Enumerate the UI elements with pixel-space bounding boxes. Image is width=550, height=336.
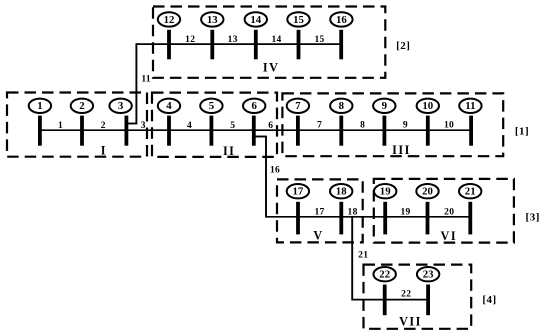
svg-text:12: 12 bbox=[164, 14, 175, 26]
svg-text:3: 3 bbox=[118, 100, 124, 112]
svg-text:17: 17 bbox=[314, 207, 324, 217]
wire feeder row VII bbox=[352, 299, 428, 301]
zone box V bbox=[277, 179, 363, 242]
bus 8 bbox=[339, 116, 343, 146]
bus 21 bbox=[468, 202, 472, 235]
bus 10 bbox=[426, 116, 430, 146]
wire branch 16 vertical bbox=[265, 137, 267, 218]
svg-text:16: 16 bbox=[336, 14, 347, 26]
node 8 bbox=[330, 99, 352, 113]
bus 22 bbox=[383, 285, 387, 316]
bus 23 bbox=[426, 285, 430, 316]
svg-text:13: 13 bbox=[228, 35, 238, 45]
bus 1 bbox=[38, 116, 42, 146]
node 12 bbox=[158, 12, 180, 26]
bus 3 bbox=[125, 116, 129, 146]
bus 13 bbox=[210, 30, 214, 60]
svg-text:6: 6 bbox=[268, 121, 273, 131]
wire branch 11 vertical bbox=[135, 43, 137, 123]
bus 12 bbox=[167, 30, 171, 60]
svg-text:VII: VII bbox=[399, 314, 422, 328]
svg-text:18: 18 bbox=[336, 186, 347, 198]
node 15 bbox=[287, 12, 309, 26]
svg-text:20: 20 bbox=[422, 186, 433, 198]
bus 7 bbox=[296, 116, 300, 146]
bus 5 bbox=[210, 116, 214, 146]
node 19 bbox=[374, 184, 396, 198]
bus 20 bbox=[426, 202, 430, 235]
svg-text:VI: VI bbox=[441, 229, 458, 243]
svg-text:9: 9 bbox=[403, 121, 408, 131]
wire branch 21 vertical bbox=[351, 217, 353, 301]
svg-text:6: 6 bbox=[251, 100, 257, 112]
node 16 bbox=[330, 12, 352, 26]
node 5 bbox=[200, 99, 222, 113]
svg-text:22: 22 bbox=[401, 289, 411, 299]
node 21 bbox=[459, 184, 481, 198]
bus 4 bbox=[167, 116, 171, 146]
bus 6 bbox=[252, 116, 256, 146]
bus 15 bbox=[297, 30, 301, 60]
svg-text:1: 1 bbox=[58, 121, 63, 131]
svg-text:14: 14 bbox=[250, 14, 261, 26]
svg-text:17: 17 bbox=[293, 186, 304, 198]
svg-text:9: 9 bbox=[382, 100, 388, 112]
svg-text:19: 19 bbox=[380, 186, 391, 198]
svg-text:5: 5 bbox=[209, 100, 214, 112]
svg-text:[1]: [1] bbox=[515, 126, 529, 138]
svg-text:1: 1 bbox=[37, 100, 42, 112]
svg-text:V: V bbox=[313, 228, 323, 242]
zone box VI bbox=[374, 179, 514, 243]
zone box I bbox=[7, 93, 147, 157]
bus 2 bbox=[80, 116, 84, 146]
svg-text:13: 13 bbox=[207, 14, 218, 26]
bus 17 bbox=[296, 202, 300, 235]
wire feeder IV bbox=[136, 43, 341, 45]
svg-text:19: 19 bbox=[400, 207, 410, 217]
wire branch 16 jog from bus 6 bbox=[254, 136, 267, 138]
node 17 bbox=[287, 184, 309, 198]
svg-text:15: 15 bbox=[293, 14, 304, 26]
svg-text:2: 2 bbox=[79, 100, 84, 112]
node 7 bbox=[287, 99, 309, 113]
svg-text:21: 21 bbox=[358, 251, 368, 261]
bus 16 bbox=[339, 30, 343, 60]
svg-text:8: 8 bbox=[360, 121, 365, 131]
svg-text:II: II bbox=[223, 144, 236, 158]
node 14 bbox=[245, 12, 267, 26]
svg-text:23: 23 bbox=[423, 269, 434, 281]
svg-text:[4]: [4] bbox=[482, 294, 496, 306]
bus 11 bbox=[469, 116, 473, 146]
svg-text:4: 4 bbox=[187, 121, 192, 131]
svg-text:11: 11 bbox=[141, 75, 151, 85]
svg-text:III: III bbox=[392, 143, 411, 157]
wire feeder row V-VI bbox=[266, 216, 470, 218]
zone box IV bbox=[153, 7, 385, 78]
node 10 bbox=[417, 99, 439, 113]
node 2 bbox=[71, 99, 93, 113]
node 20 bbox=[416, 184, 438, 198]
svg-text:IV: IV bbox=[263, 60, 280, 74]
node 18 bbox=[330, 184, 352, 198]
svg-text:22: 22 bbox=[379, 269, 390, 281]
svg-text:16: 16 bbox=[270, 165, 280, 175]
svg-text:18: 18 bbox=[348, 207, 358, 217]
svg-text:[2]: [2] bbox=[396, 40, 410, 52]
svg-text:21: 21 bbox=[465, 186, 476, 198]
svg-text:5: 5 bbox=[230, 121, 235, 131]
svg-text:[3]: [3] bbox=[526, 212, 540, 224]
svg-text:11: 11 bbox=[465, 100, 475, 112]
svg-text:10: 10 bbox=[422, 100, 433, 112]
svg-text:7: 7 bbox=[295, 100, 301, 112]
bus 9 bbox=[383, 116, 387, 146]
zone box VII bbox=[364, 265, 472, 329]
svg-text:2: 2 bbox=[101, 121, 106, 131]
svg-text:14: 14 bbox=[271, 35, 281, 45]
node 22 bbox=[374, 267, 396, 281]
bus 18 bbox=[339, 202, 343, 235]
node 3 bbox=[109, 99, 131, 113]
node 1 bbox=[29, 99, 51, 113]
wire branch 11 jog to bus 3 bbox=[127, 123, 138, 125]
svg-text:7: 7 bbox=[317, 121, 322, 131]
node 11 bbox=[459, 99, 481, 113]
node 9 bbox=[373, 99, 395, 113]
zone box III bbox=[282, 93, 503, 156]
node 4 bbox=[158, 99, 180, 113]
bus 19 bbox=[383, 202, 387, 235]
svg-text:I: I bbox=[101, 143, 107, 157]
svg-text:20: 20 bbox=[444, 207, 454, 217]
svg-text:12: 12 bbox=[185, 35, 195, 45]
node 13 bbox=[201, 12, 223, 26]
wire feeder main row bbox=[40, 129, 471, 131]
svg-text:8: 8 bbox=[339, 100, 345, 112]
node 6 bbox=[243, 99, 265, 113]
svg-text:3: 3 bbox=[141, 121, 146, 131]
zone box II bbox=[152, 93, 277, 157]
svg-text:15: 15 bbox=[314, 35, 324, 45]
node 23 bbox=[417, 267, 439, 281]
svg-text:4: 4 bbox=[166, 100, 172, 112]
svg-text:10: 10 bbox=[444, 121, 454, 131]
bus 14 bbox=[254, 30, 258, 60]
